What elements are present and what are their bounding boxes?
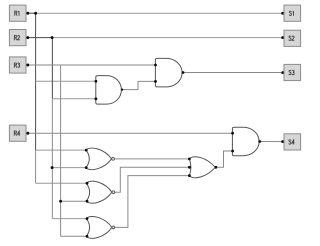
wire R1 stub from box to fanout xyxy=(26,12,36,14)
node X4 input C pin xyxy=(188,174,191,177)
node X1 input B pin xyxy=(85,166,88,169)
AND gate G4 xyxy=(232,127,259,156)
AND gate G2 xyxy=(155,58,182,87)
wire V3 branch to X2 input B xyxy=(61,200,87,202)
NOR gate X2 xyxy=(86,181,114,203)
wire vertical V1 from R1 lower light part xyxy=(35,150,37,183)
wire R2 stub from box to fanout xyxy=(26,37,52,39)
wire X3 output step to X4 input C xyxy=(115,176,189,228)
wire G4 output to S4 xyxy=(259,141,284,143)
node X2 input A pin xyxy=(86,182,89,185)
wire V2 branch to X1 input B xyxy=(52,167,86,169)
node R2 fanout junction on V2 xyxy=(51,36,54,39)
node G1 output pin xyxy=(121,88,123,90)
node G2 output pin xyxy=(182,71,185,74)
node X3 input A pin xyxy=(86,217,89,220)
input box R4 xyxy=(9,125,26,141)
node G4 input A pin xyxy=(231,132,234,135)
output box S2 xyxy=(284,30,301,46)
wire X1 output to X4 input A xyxy=(115,158,190,160)
output box S4 xyxy=(284,134,301,150)
node G2 input A pin xyxy=(154,64,157,67)
wire vertical V2 from R2 upper dark part xyxy=(51,38,53,99)
NOR gate X3 xyxy=(86,216,114,238)
node G2 input B pin xyxy=(154,80,157,83)
node junction V3 to X2 input B xyxy=(59,200,62,203)
node junction V2 to X1 input B xyxy=(51,166,54,169)
node G4 input B pin xyxy=(231,150,234,153)
input box R1 xyxy=(9,5,26,21)
wire V1 branch to G1 input A xyxy=(36,80,96,82)
node R4 output pin xyxy=(26,132,29,135)
wire R1 to S1 xyxy=(36,12,284,14)
wire V2 corner to X3 input A xyxy=(52,218,87,220)
output box S3 xyxy=(284,64,301,80)
wire vertical V3 from R3 xyxy=(60,65,62,236)
node G1 input B pin xyxy=(95,97,98,100)
node R1 fanout junction on V1 xyxy=(34,12,37,15)
wire V2 branch to G1 input B xyxy=(52,98,96,100)
wire R2 to S2 xyxy=(52,37,284,39)
node S2 input pin xyxy=(281,36,284,39)
node R2 output pin xyxy=(26,36,29,39)
wire X4 output step to G4 input B xyxy=(215,151,232,167)
wire G1 output step to G2 input B xyxy=(121,81,155,89)
node X3 input B pin xyxy=(86,235,89,238)
wire V1 corner to X2 input A xyxy=(36,182,87,184)
NOR gate X1 xyxy=(86,148,114,170)
node R3 output pin xyxy=(26,64,29,67)
wire X2 output step to X4 input B xyxy=(115,167,189,192)
wire V3 corner to X3 input B xyxy=(61,235,87,237)
node X2 input B pin xyxy=(86,200,89,203)
node X1 input A pin xyxy=(85,149,88,152)
node S4 input pin xyxy=(281,140,284,143)
input box R3 xyxy=(9,57,26,73)
node X4 input A pin xyxy=(188,158,191,161)
wire vertical V2 from R2 lower light part xyxy=(51,99,53,219)
input box R2 xyxy=(9,30,26,46)
node S3 input pin xyxy=(281,71,284,74)
node X4 output pin xyxy=(215,166,218,169)
node G4 output pin xyxy=(258,140,261,143)
output box S1 xyxy=(284,5,301,21)
OR gate X4 xyxy=(189,157,215,178)
wire V1 branch to X1 input A xyxy=(36,149,87,151)
node G1 input A pin xyxy=(95,80,98,83)
node R1 output pin xyxy=(26,12,29,15)
wire G2 output to S3 xyxy=(182,72,284,74)
node S1 input pin xyxy=(281,12,284,15)
node X4 input B pin xyxy=(188,166,191,169)
wire vertical V1 from R1 upper dark part xyxy=(35,13,37,150)
AND gate G1 xyxy=(96,76,122,105)
wire R3 to G2 input A xyxy=(26,64,156,66)
wire R4 to G4 input A xyxy=(26,132,233,134)
